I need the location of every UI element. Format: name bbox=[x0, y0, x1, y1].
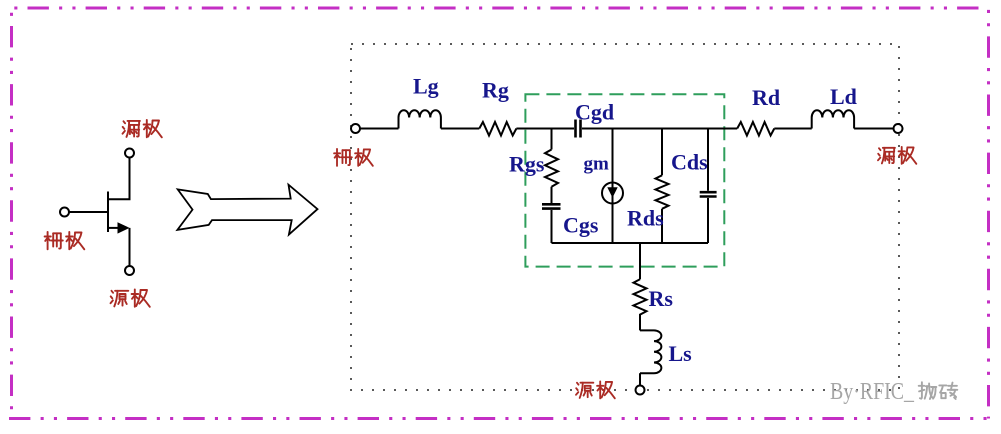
label 栅极 (circuit gate) bbox=[334, 149, 373, 166]
bottom rail bbox=[552, 242, 709, 244]
svg-text:By·RFIC_: By·RFIC_ bbox=[830, 379, 915, 405]
wire Rs to Ls bbox=[639, 319, 641, 330]
branch Cds wire top bbox=[707, 129, 709, 191]
svg-text:Rds: Rds bbox=[627, 206, 664, 231]
inductor Lg bbox=[399, 110, 441, 128]
gate lead wire bbox=[69, 211, 108, 213]
branch Rds wire top bbox=[661, 129, 663, 176]
wire Rg to node bbox=[516, 128, 574, 130]
label 漏极 (left drain) bbox=[123, 120, 162, 137]
resistor Rs bbox=[634, 279, 647, 319]
svg-text:gm: gm bbox=[584, 154, 610, 175]
source stem wire bbox=[639, 243, 641, 279]
label 源极 (left source) bbox=[111, 289, 150, 306]
wire Rgs to Cgs bbox=[551, 187, 553, 203]
drain terminal circle bbox=[894, 124, 903, 133]
capacitor Cds plates bbox=[700, 191, 717, 194]
wire Ld to drain bbox=[854, 128, 893, 130]
source lead wire bbox=[129, 228, 131, 266]
big block arrow bbox=[177, 185, 317, 235]
drain terminal circle bbox=[125, 149, 134, 158]
branch Rgs/Cgs wire from rail bbox=[551, 129, 553, 150]
svg-text:Cgs: Cgs bbox=[563, 213, 599, 238]
resistor Rds bbox=[656, 175, 669, 209]
svg-text:Cds: Cds bbox=[671, 150, 708, 175]
green dashed intrinsic box bbox=[525, 94, 724, 266]
svg-text:Rs: Rs bbox=[649, 286, 674, 311]
capacitor Cgs plates bbox=[542, 203, 561, 206]
svg-text:Rd: Rd bbox=[752, 85, 780, 110]
branch gm wire bbox=[612, 129, 614, 244]
svg-text:Ls: Ls bbox=[669, 341, 693, 366]
gray dotted device box bbox=[351, 44, 899, 390]
source terminal circle bbox=[636, 386, 645, 395]
wire Ls to source terminal bbox=[639, 373, 641, 385]
svg-text:Rg: Rg bbox=[482, 78, 509, 103]
wire Cgd to drain side bbox=[582, 128, 737, 130]
svg-text:Rgs: Rgs bbox=[509, 152, 545, 177]
inductor Ls bbox=[640, 330, 661, 373]
wire Lg to Rg bbox=[441, 128, 479, 130]
resistor Rd bbox=[737, 122, 774, 136]
current source gm circle bbox=[602, 183, 623, 204]
wire Rd to Ld bbox=[774, 128, 811, 130]
wire gate to Lg bbox=[360, 128, 399, 130]
transistor Q1 channel bar bbox=[107, 192, 109, 233]
resistor Rgs bbox=[545, 150, 558, 187]
gate terminal circle bbox=[60, 208, 69, 217]
source arrowhead bbox=[118, 222, 130, 233]
label 漏极 (circuit drain) bbox=[878, 147, 916, 164]
source tap wire bbox=[108, 227, 118, 229]
drain tap wire bbox=[108, 158, 130, 200]
svg-text:Cgd: Cgd bbox=[575, 100, 614, 125]
inductor Ld bbox=[812, 110, 854, 128]
capacitor Cgd plates bbox=[574, 120, 577, 138]
wire Cgs to bottom rail bbox=[551, 210, 553, 243]
wire Cds to bottom rail bbox=[707, 198, 709, 243]
svg-text:Lg: Lg bbox=[413, 74, 439, 99]
resistor Rg bbox=[479, 122, 516, 136]
wire Rds to bottom rail bbox=[661, 209, 663, 243]
label 源极 (circuit source) bbox=[576, 381, 615, 398]
source terminal circle bbox=[125, 266, 134, 275]
svg-text:Ld: Ld bbox=[830, 84, 857, 109]
label 栅极 (left gate) bbox=[45, 232, 85, 249]
gate terminal circle bbox=[351, 124, 360, 133]
gm arrow head bbox=[607, 187, 617, 197]
